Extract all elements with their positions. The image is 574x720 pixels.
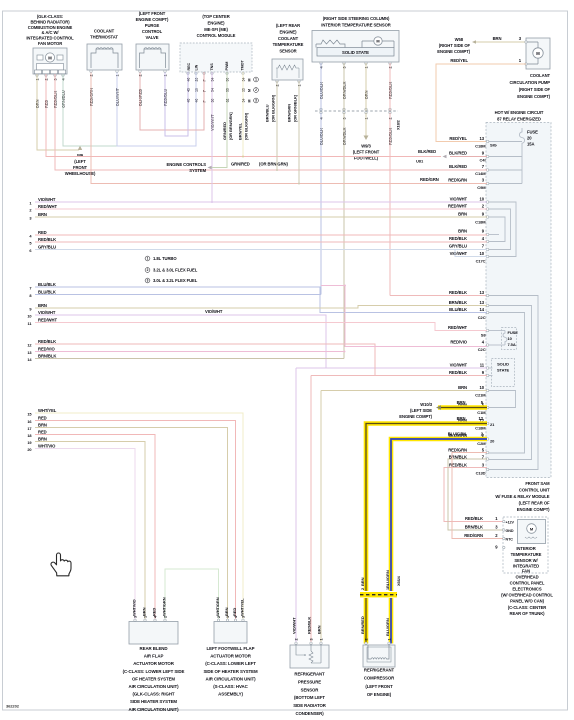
svg-text:RED/BLK: RED/BLK: [38, 339, 56, 344]
wire BRN pin1 to ground: [365, 63, 367, 111]
svg-text:2: 2: [361, 588, 365, 590]
wire 4 RED: [35, 234, 487, 236]
svg-text:COMBUSTION ENGINE: COMBUSTION ENGINE: [28, 25, 73, 30]
svg-text:34: 34: [242, 78, 246, 82]
svg-text:C21M: C21M: [475, 393, 486, 398]
svg-text:SIDE RADIATOR: SIDE RADIATOR: [293, 703, 326, 708]
svg-text:BRN: BRN: [457, 400, 466, 405]
legend engine variants: [145, 256, 198, 283]
svg-text:C4I: C4I: [480, 158, 486, 163]
svg-text:FUSE: FUSE: [508, 330, 519, 335]
svg-text:NTC: NTC: [506, 537, 514, 541]
wire 17 BRN: [35, 428, 228, 621]
svg-text:AIR FLAP: AIR FLAP: [144, 654, 164, 659]
svg-text:GRN/RED: GRN/RED: [222, 122, 227, 140]
wire 15 WHT/YEL: [35, 413, 243, 620]
svg-text:BLK/RED: BLK/RED: [418, 149, 436, 154]
refrigerant pressure sensor: [290, 645, 329, 668]
svg-text:WHT/GRN: WHT/GRN: [215, 597, 220, 616]
panel long traces lower: [489, 296, 538, 470]
interior temperature sensor label: [321, 16, 390, 28]
wire WHT/GRN jumper: [165, 569, 219, 620]
svg-text:M: M: [248, 89, 252, 92]
front SAM panel header: [495, 110, 544, 122]
interior temperature sensor (solid state): [312, 31, 399, 69]
svg-text:VIO/WHT: VIO/WHT: [38, 197, 56, 202]
svg-text:VALVE: VALVE: [146, 35, 159, 40]
ME-SFI control module U1: [180, 43, 252, 74]
wire 11 RED/WHT: [35, 323, 487, 331]
svg-text:ENGINE COMPT): ENGINE COMPT): [437, 49, 470, 54]
svg-text:INTERIOR: INTERIOR: [516, 546, 535, 551]
svg-text:46: 46: [195, 99, 199, 103]
svg-text:BRN: BRN: [224, 607, 229, 616]
ME module pin numbers: [187, 77, 259, 103]
svg-text:OVERHEAD: OVERHEAD: [515, 575, 538, 580]
panel nested traces mid: [489, 202, 516, 257]
wire 6 GRY/BLU: [35, 249, 487, 251]
svg-text:CONDENSER): CONDENSER): [295, 711, 324, 716]
svg-text:RED/VIO: RED/VIO: [38, 346, 55, 351]
svg-text:AIR CIRCULATION UNIT): AIR CIRCULATION UNIT): [129, 684, 180, 689]
svg-text:2: 2: [365, 638, 369, 640]
svg-text:(LEFT REAR: (LEFT REAR: [276, 23, 300, 28]
svg-text:BRN: BRN: [38, 422, 47, 427]
svg-text:BLU/GRN: BLU/GRN: [385, 570, 390, 588]
svg-text:3: 3: [310, 638, 314, 640]
svg-text:WHT/GRN: WHT/GRN: [162, 597, 167, 616]
wire BLU/WHT thermostat pin1 to module: [117, 72, 196, 146]
svg-text:RED/YEL: RED/YEL: [449, 136, 467, 141]
svg-text:THERMOSTAT: THERMOSTAT: [90, 35, 118, 40]
wire 9 BRN: [35, 306, 487, 309]
svg-text:RED: RED: [38, 230, 47, 235]
svg-text:(OR BRN/GRN): (OR BRN/GRN): [259, 162, 289, 167]
svg-text:1: 1: [147, 257, 149, 261]
svg-text:(C-CLASS: LOWER LEFT SIDE: (C-CLASS: LOWER LEFT SIDE: [123, 669, 185, 674]
svg-text:BLU/BLK: BLU/BLK: [449, 307, 467, 312]
svg-text:10: 10: [480, 251, 485, 256]
svg-text:(TOP CENTER: (TOP CENTER: [202, 14, 229, 19]
svg-text:M: M: [248, 100, 252, 103]
compressor yellow wires lower: [366, 598, 391, 644]
coolant circulation pump M2: [525, 38, 550, 69]
svg-text:11: 11: [480, 363, 485, 368]
wire 19 BRN: [35, 442, 145, 621]
wire GRN/BLU fan pin4: [63, 74, 117, 146]
svg-text:BRN: BRN: [38, 212, 47, 217]
svg-text:13: 13: [480, 136, 485, 141]
ME module wire labels: [210, 112, 249, 140]
svg-text:3: 3: [255, 99, 257, 103]
svg-text:34: 34: [242, 99, 246, 103]
wire 1 VIO/WHT: [35, 201, 487, 203]
wire RED/BLK pin2 down: [389, 63, 391, 111]
svg-text:RED/WHT: RED/WHT: [448, 204, 468, 209]
svg-text:TEMPERATURE: TEMPERATURE: [511, 552, 542, 557]
wire RED/BLK panel to sensor: [444, 468, 503, 522]
svg-text:BRN: BRN: [142, 607, 147, 616]
svg-text:VIO/WHT: VIO/WHT: [450, 363, 468, 368]
svg-text:(LEFT FRONT: (LEFT FRONT: [365, 684, 393, 689]
svg-text:M: M: [48, 55, 52, 60]
svg-text:RED/GRN: RED/GRN: [420, 177, 439, 182]
fan motor M1: [33, 48, 67, 81]
svg-text:C18M: C18M: [475, 144, 486, 149]
ME-SFI control module label: [197, 14, 236, 38]
svg-text:ACTUATOR MOTOR: ACTUATOR MOTOR: [210, 654, 251, 659]
svg-text:C2C: C2C: [478, 315, 486, 320]
svg-text:BRN/BLK: BRN/BLK: [465, 525, 483, 530]
rear blend air flap actuator labels rotated: [132, 597, 168, 621]
connector X66/4: [360, 588, 397, 597]
rear blend actuator caption: [123, 646, 185, 712]
svg-text:AIR CIRCULATION UNIT): AIR CIRCULATION UNIT): [206, 676, 257, 681]
svg-text:3: 3: [134, 616, 138, 618]
svg-text:STATE: STATE: [497, 368, 510, 373]
svg-text:35: 35: [242, 88, 246, 92]
svg-text:RED/BLK: RED/BLK: [449, 290, 467, 295]
wire BLU/BLK pin4 down: [320, 63, 322, 111]
svg-text:FRONT: FRONT: [73, 165, 88, 170]
svg-text:RED/WHT: RED/WHT: [38, 317, 58, 322]
purge control valve: [136, 44, 169, 77]
svg-text:BRN/BLU: BRN/BLU: [264, 104, 269, 122]
svg-text:RED/BLK: RED/BLK: [307, 617, 312, 634]
svg-text:38: 38: [211, 99, 215, 103]
wire coolant sensor pin1 down: [298, 81, 300, 184]
svg-text:AIR CIRCULATION UNIT): AIR CIRCULATION UNIT): [129, 707, 180, 712]
ground W9: [65, 146, 96, 177]
panel BRN jumper trace: [489, 391, 516, 408]
svg-text:BRN/GRN: BRN/GRN: [286, 104, 291, 122]
svg-text:COOLANT: COOLANT: [278, 36, 299, 41]
svg-text:SIDE HEATER SYSTEM: SIDE HEATER SYSTEM: [130, 699, 177, 704]
svg-text:C18M: C18M: [475, 220, 486, 225]
svg-text:ACTUATOR MOTOR: ACTUATOR MOTOR: [133, 661, 174, 666]
interior temperature sensor w/ integrated fan: [503, 517, 548, 574]
wire 16 RED: [35, 421, 236, 621]
svg-text:(GLK-CLASS: RIGHT: (GLK-CLASS: RIGHT: [132, 692, 174, 697]
svg-text:14: 14: [480, 307, 485, 312]
svg-text:13: 13: [480, 300, 485, 305]
svg-text:BRN/YEL: BRN/YEL: [237, 122, 242, 140]
svg-text:+12V: +12V: [506, 520, 515, 524]
svg-text:BRN/BLK: BRN/BLK: [38, 353, 56, 358]
svg-text:LIN: LIN: [195, 64, 199, 70]
svg-text:BRN: BRN: [38, 436, 47, 441]
wire 12 RED/BLK: [35, 344, 375, 376]
svg-text:BLU/GRN: BLU/GRN: [385, 618, 390, 636]
svg-text:BRN/RED: BRN/RED: [360, 616, 365, 634]
left footwell flap actuator labels rotated: [215, 597, 246, 621]
svg-text:RED: RED: [38, 429, 47, 434]
svg-text:3: 3: [147, 279, 149, 283]
ground W58: [437, 37, 476, 54]
svg-text:BRN: BRN: [38, 303, 47, 308]
svg-text:26: 26: [195, 78, 199, 82]
svg-text:RED/WHT: RED/WHT: [448, 325, 468, 330]
coolant temperature sensor label: [273, 23, 304, 54]
svg-text:10: 10: [27, 314, 31, 319]
wire BRN fan pin1 to ground W9: [37, 74, 79, 150]
svg-text:[OR BLK/GRN]: [OR BLK/GRN]: [271, 94, 276, 122]
svg-text:BRN/BLK: BRN/BLK: [449, 300, 467, 305]
svg-text:WHT/VIO: WHT/VIO: [132, 599, 137, 616]
svg-text:SENSOR: SENSOR: [301, 687, 320, 692]
svg-text:SIG: SIG: [490, 143, 497, 148]
solid state box: [489, 359, 515, 387]
svg-text:10: 10: [480, 197, 485, 202]
svg-text:REFRIGERANT: REFRIGERANT: [294, 672, 325, 677]
svg-text:2: 2: [295, 638, 299, 640]
panel pin numbers 21 20: [490, 422, 495, 444]
coolant temp sensor wire labels: [264, 94, 297, 122]
svg-text:GRY/BLU: GRY/BLU: [449, 244, 467, 249]
refrigerant compressor caption: [364, 668, 395, 698]
svg-text:1.8L TURBO: 1.8L TURBO: [153, 256, 177, 261]
svg-text:RED/WHT: RED/WHT: [38, 204, 58, 209]
svg-text:C1M: C1M: [477, 410, 486, 415]
svg-text:C9M: C9M: [477, 185, 486, 190]
svg-text:RED/BLK: RED/BLK: [449, 370, 467, 375]
ground W9/3: [353, 136, 380, 161]
wire BLK/RED purge pin2 to module: [140, 72, 204, 130]
svg-text:[OR BLK/GRN]: [OR BLK/GRN]: [244, 112, 249, 140]
svg-text:BRN: BRN: [458, 385, 467, 390]
svg-text:W10/3: W10/3: [420, 402, 432, 407]
svg-text:15A: 15A: [527, 142, 534, 147]
svg-text:FAN MOTOR: FAN MOTOR: [38, 41, 62, 46]
svg-text:RED/BLK: RED/BLK: [465, 516, 483, 521]
svg-text:TEMPERATURE: TEMPERATURE: [273, 42, 304, 47]
svg-text:(S-CLASS: HVAC: (S-CLASS: HVAC: [213, 684, 248, 689]
svg-text:SENSOR W/: SENSOR W/: [514, 558, 538, 563]
svg-text:BRN: BRN: [360, 577, 365, 586]
panel pin bumps: [486, 140, 489, 471]
svg-text:REC: REC: [187, 63, 191, 71]
overhead control panel caption: [501, 575, 553, 616]
svg-text:BLU/BLK: BLU/BLK: [38, 282, 56, 287]
svg-text:(LEFT REAR OF: (LEFT REAR OF: [519, 501, 550, 506]
svg-text:CONTROL UNIT: CONTROL UNIT: [519, 488, 550, 493]
svg-text:(RIGHT SIDE OF: (RIGHT SIDE OF: [519, 87, 551, 92]
purge valve wire labels: [138, 89, 168, 106]
left footwell flap actuator motor: [214, 622, 247, 644]
svg-text:(C-CLASS: CENTER: (C-CLASS: CENTER: [508, 605, 547, 610]
svg-text:VIO/WHT: VIO/WHT: [38, 310, 56, 315]
mouse hand cursor: [51, 553, 71, 576]
svg-text:X66/4: X66/4: [396, 575, 401, 586]
wire 6 stub to pin 256: [455, 250, 487, 257]
wire 5 RED/BLK: [35, 241, 487, 243]
svg-text:2: 2: [217, 616, 221, 618]
svg-text:RED: RED: [232, 608, 237, 616]
svg-text:ENGINE): ENGINE): [280, 29, 298, 34]
purge control valve label: [136, 11, 169, 40]
left footwell actuator caption: [203, 646, 258, 697]
svg-text:C13D: C13D: [476, 471, 486, 476]
svg-text:2: 2: [147, 268, 149, 272]
wire RED/BLU purge pin1 to module: [165, 72, 188, 136]
coolant temperature sensor: [272, 59, 303, 87]
svg-text:W9: W9: [77, 153, 84, 158]
svg-text:RED: RED: [38, 415, 47, 420]
left wire number and name labels: [27, 197, 57, 452]
svg-text:GRN/RED: GRN/RED: [231, 162, 250, 167]
svg-text:ENGINE COMPT): ENGINE COMPT): [517, 94, 550, 99]
svg-text:W/ FUSE & RELAY MODULE: W/ FUSE & RELAY MODULE: [495, 494, 549, 499]
svg-text:RED/VIO: RED/VIO: [450, 340, 467, 345]
svg-text:SENSOR: SENSOR: [279, 49, 296, 54]
svg-text:PRESSURE: PRESSURE: [298, 679, 321, 684]
wire BRN 10 panel to sensor: [321, 390, 487, 392]
svg-text:17: 17: [27, 426, 31, 431]
svg-text:BRN: BRN: [457, 416, 466, 421]
svg-text:62: 62: [226, 99, 230, 103]
svg-text:C17C: C17C: [476, 259, 486, 264]
svg-text:U81: U81: [416, 159, 424, 164]
svg-text:VIO/WHT: VIO/WHT: [205, 309, 223, 314]
wire VIO/WHT module pin down: [211, 72, 213, 202]
svg-text:RED/GRN: RED/GRN: [464, 533, 483, 538]
fan motor wire labels: [35, 90, 66, 108]
svg-text:BLK/RED: BLK/RED: [449, 151, 467, 156]
svg-text:SOLID STATE: SOLID STATE: [342, 50, 369, 55]
svg-text:13: 13: [480, 290, 485, 295]
panel wire labels column: [448, 136, 486, 476]
svg-text:45: 45: [187, 99, 191, 103]
svg-text:BRN: BRN: [317, 625, 322, 634]
svg-text:WHT/YEL: WHT/YEL: [240, 598, 245, 616]
panel traces top: [489, 157, 522, 184]
svg-text:PURGE: PURGE: [145, 23, 160, 28]
compressor wire labels upper: [360, 570, 401, 588]
svg-text:1: 1: [255, 78, 257, 82]
svg-text:(GLK-CLASS:: (GLK-CLASS:: [37, 14, 63, 19]
svg-text:X18/2: X18/2: [396, 119, 401, 130]
wire BRN/BLK panel to sensor: [448, 459, 503, 530]
svg-text:RED/YEL: RED/YEL: [450, 58, 468, 63]
svg-text:SIDE OF HEATER SYSTEM: SIDE OF HEATER SYSTEM: [203, 669, 258, 674]
svg-text:C2C: C2C: [478, 347, 486, 352]
wire 13 RED/VIO: [35, 351, 345, 353]
wire RED/VIO to panel: [321, 286, 487, 347]
svg-text:7: 7: [29, 286, 31, 291]
svg-text:INTEGRATED CONTROL: INTEGRATED CONTROL: [26, 36, 74, 41]
engine controls system arrow: [166, 162, 288, 174]
svg-text:ME-SFI (ME): ME-SFI (ME): [204, 27, 228, 32]
svg-text:& A/C W/: & A/C W/: [42, 30, 60, 35]
svg-text:1: 1: [144, 616, 148, 618]
svg-text:20: 20: [527, 136, 532, 141]
svg-text:BLK/RED: BLK/RED: [449, 164, 467, 169]
svg-text:OF HEATER SYSTEM: OF HEATER SYSTEM: [132, 676, 175, 681]
front SAM control unit panel: [486, 123, 551, 478]
interior temp sensor wire labels upper: [319, 81, 393, 99]
svg-text:50: 50: [226, 78, 230, 82]
svg-text:BLU/GRN: BLU/GRN: [448, 432, 467, 437]
svg-text:RED/GRN: RED/GRN: [448, 448, 467, 453]
svg-text:SYSTEM: SYSTEM: [189, 168, 206, 173]
svg-text:(LEFT: (LEFT: [74, 159, 86, 164]
wire 2 RED/WHT: [35, 208, 487, 210]
svg-text:GND: GND: [506, 529, 514, 533]
svg-text:BRN: BRN: [458, 212, 467, 217]
svg-text:GRY/BLU: GRY/BLU: [38, 244, 56, 249]
svg-text:BLU/BLK: BLU/BLK: [38, 289, 56, 294]
svg-text:ASSEMBLY): ASSEMBLY): [218, 692, 243, 697]
front SAM label: [495, 481, 550, 512]
wire RED/GRN panel to sensor: [452, 453, 503, 539]
svg-text:BEHIND RADIATOR): BEHIND RADIATOR): [30, 19, 70, 24]
svg-text:RED/BLK: RED/BLK: [38, 237, 56, 242]
svg-text:TMOT: TMOT: [241, 60, 245, 71]
svg-text:2: 2: [164, 616, 168, 618]
svg-text:43: 43: [187, 88, 191, 92]
wire RED/YEL pump pin1: [436, 58, 526, 142]
svg-text:VIO/WHT: VIO/WHT: [450, 197, 468, 202]
svg-text:3.0L & 3.2L FLEX FUEL: 3.0L & 3.2L FLEX FUEL: [153, 278, 198, 283]
svg-text:COOLANT: COOLANT: [530, 73, 551, 78]
svg-text:1: 1: [320, 638, 324, 640]
svg-text:20: 20: [27, 447, 31, 452]
interior temp sensor wire labels lower: [319, 127, 393, 145]
connector X18/2: [315, 108, 401, 130]
svg-text:CONTROL PANEL: CONTROL PANEL: [510, 581, 545, 586]
wire 8 BLU/BLK: [35, 294, 321, 296]
svg-text:ENGINE COMPT): ENGINE COMPT): [517, 507, 550, 512]
svg-text:COOLANT: COOLANT: [94, 29, 115, 34]
svg-text:55: 55: [226, 88, 230, 92]
fan motor M1 label: [26, 14, 74, 46]
svg-text:SOLID: SOLID: [497, 362, 509, 367]
svg-text:(RIGHT SIDE OF: (RIGHT SIDE OF: [439, 43, 471, 48]
svg-text:RED: RED: [152, 608, 157, 616]
svg-text:COMPRESSOR: COMPRESSOR: [364, 676, 395, 681]
svg-text:ELECTRONICS: ELECTRONICS: [512, 587, 541, 592]
svg-text:ENGINE CONTROLS: ENGINE CONTROLS: [166, 162, 206, 167]
svg-text:ENGINE COMPT): ENGINE COMPT): [399, 414, 432, 419]
svg-text:W9/3: W9/3: [361, 144, 371, 149]
refrigerant pressure sensor labels rotated: [292, 617, 324, 645]
svg-text:54: 54: [211, 78, 215, 82]
svg-text:ENGINE): ENGINE): [208, 20, 226, 25]
rear blend air flap actuator motor: [129, 622, 178, 645]
compressor wire labels lower: [360, 616, 390, 636]
wire RED fan pin2 (BLK/RED 9): [46, 74, 441, 157]
svg-text:VIO/WHT: VIO/WHT: [292, 617, 297, 634]
svg-text:12: 12: [479, 416, 484, 421]
svg-text:C14M: C14M: [475, 171, 486, 176]
pump label: [509, 73, 550, 99]
svg-text:BRN: BRN: [493, 36, 502, 41]
svg-text:(RIGHT SIDE STEERING COLUMN): (RIGHT SIDE STEERING COLUMN): [323, 16, 390, 21]
svg-text:VIO/WHT: VIO/WHT: [450, 251, 468, 256]
refrigerant pressure sensor caption: [293, 672, 326, 717]
wire BRN/BLK pin3 down: [343, 63, 345, 111]
coolant thermostat label: [90, 29, 118, 40]
svg-text:C18M: C18M: [475, 426, 486, 431]
wire 3 BRN: [35, 216, 487, 218]
svg-text:HOT W/ ENGINE CIRCUIT: HOT W/ ENGINE CIRCUIT: [495, 110, 544, 115]
svg-text:M: M: [376, 39, 379, 44]
wire RED/GRN thermostat pin2: [91, 73, 487, 184]
svg-text:1: 1: [226, 616, 230, 618]
svg-text:54: 54: [211, 88, 215, 92]
wire BLU/GRN 2 yellow: [391, 432, 487, 592]
wire BRN pump pin3: [476, 36, 526, 42]
